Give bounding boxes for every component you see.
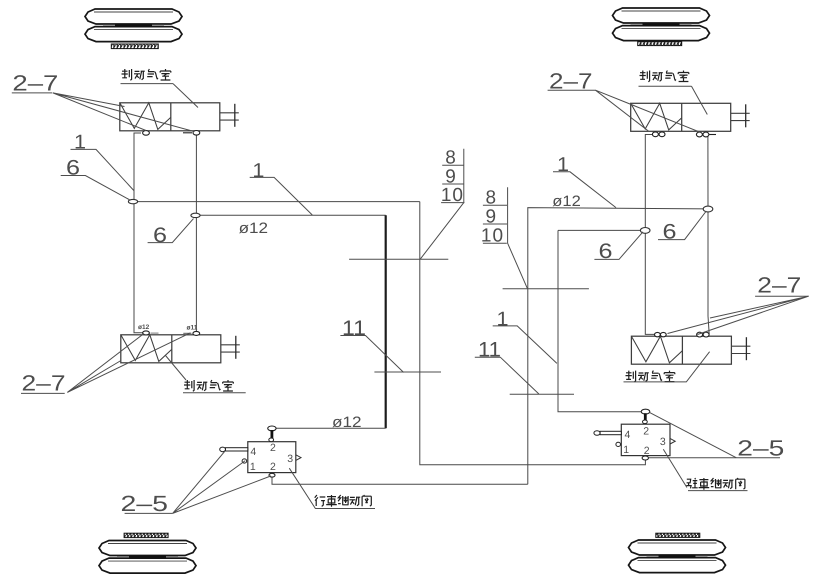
svg-text:2–7: 2–7 <box>549 68 593 93</box>
wire W6: horizontal from node B to thick riser <box>196 214 386 216</box>
port size label ø11 <box>187 325 198 332</box>
right valve bottom port <box>642 456 648 460</box>
bottom-left chamber right port <box>183 331 199 335</box>
bottom-right chamber left port pair <box>655 332 667 336</box>
wheel tire bottom-right <box>629 540 726 573</box>
label 11 (left, pipe pair) <box>340 317 441 372</box>
svg-text:ø12: ø12 <box>239 220 269 237</box>
wire W2: top-left chamber right port down to bottom-left chamber <box>195 135 197 331</box>
svg-text:ø12: ø12 <box>138 324 150 331</box>
svg-text:4: 4 <box>250 446 256 458</box>
wheel tire top-left <box>85 9 182 42</box>
label 驻车继动阀 (parking relay valve) <box>663 449 747 490</box>
wire W13: top-right chamber left port down through node C to bottom-right chamber <box>645 135 654 335</box>
svg-text:6: 6 <box>153 224 167 247</box>
label 制动气室 top-right (brake chamber) <box>639 71 708 115</box>
label 6 (node C) <box>594 232 643 263</box>
svg-text:2: 2 <box>643 425 649 437</box>
wire W7: thick riser x386 <box>385 215 387 428</box>
top-left chamber left port <box>143 131 150 136</box>
label 2-7 top-left with leaders <box>12 71 194 132</box>
brake chamber bottom-right body <box>631 336 750 364</box>
label 1 (right pipe y207) <box>553 154 616 207</box>
wire W8: y428 across to left relay valve top port <box>274 427 386 429</box>
label 2-7 bottom-right with leaders <box>668 273 809 335</box>
brake chamber bottom-left body <box>121 335 240 363</box>
svg-text:ø12: ø12 <box>332 414 362 431</box>
svg-text:1: 1 <box>74 131 86 153</box>
node D connector 6 <box>703 206 713 212</box>
wheel tire top-right <box>613 8 710 41</box>
label 2-7 bottom-left with leaders <box>21 333 191 396</box>
node A connector 6 <box>128 199 137 203</box>
label 制动气室 bottom-left (brake chamber) <box>166 356 246 393</box>
relay valve right 驻车继动阀 body <box>621 424 675 457</box>
svg-text:11: 11 <box>478 339 501 362</box>
brake chamber top-left body <box>120 103 239 131</box>
right valve pilot pin port 4 <box>594 431 621 447</box>
axle hatch bottom-left <box>124 533 168 537</box>
svg-text:ø12: ø12 <box>552 193 581 210</box>
axle hatch top-right <box>638 42 682 46</box>
port size label ø12 <box>138 324 150 331</box>
axle hatch top-left <box>111 44 158 49</box>
label stack 8/9/10 (right) <box>481 187 589 289</box>
left valve top port <box>268 426 276 442</box>
axle hatch bottom-right <box>656 533 700 537</box>
svg-text:2–5: 2–5 <box>121 491 169 516</box>
label 制动气室 bottom-right (brake chamber) <box>624 352 710 382</box>
svg-text:3: 3 <box>287 453 293 465</box>
bottom-right chamber right port pair <box>697 332 710 337</box>
svg-text:3: 3 <box>660 436 666 448</box>
label 6 (node D) <box>658 211 706 244</box>
wire W14: horizontal from node C left to corner x558 <box>558 229 645 231</box>
svg-text:2: 2 <box>644 445 650 457</box>
bottom-left chamber left port <box>143 331 159 335</box>
svg-text:6: 6 <box>66 157 80 180</box>
label ø12 (left pipe) <box>239 220 269 237</box>
svg-text:2: 2 <box>270 461 276 473</box>
right valve top port <box>641 409 650 423</box>
relay valve left 行车继动阀 body <box>248 442 301 473</box>
wire W3: horizontal from node A to corner x420 <box>134 201 420 203</box>
left valve bottom port <box>269 473 275 477</box>
svg-text:2–7: 2–7 <box>757 273 801 298</box>
top-right chamber right port pair <box>696 132 716 137</box>
svg-text:11: 11 <box>342 317 366 340</box>
svg-text:4: 4 <box>625 429 631 441</box>
brake chamber top-right body <box>631 103 750 131</box>
wheel tire bottom-left <box>99 541 196 574</box>
label stack 8/9/10 (left) <box>349 148 464 260</box>
label 1 (pipe x558) <box>493 308 557 363</box>
label 行车继动阀 (service relay valve) <box>289 468 375 508</box>
label 制动气室 top-left (brake chamber) <box>121 69 199 108</box>
node B connector 6 <box>191 213 200 217</box>
wire W9: left relay valve port 2 down and across y484 <box>272 477 528 484</box>
label 11 (right, pipe pair) <box>475 339 574 395</box>
svg-text:ø11: ø11 <box>187 325 198 332</box>
label ø12 (near left relay valve) <box>332 414 362 431</box>
top-right chamber left port pair <box>652 132 665 137</box>
wire W4/W5: down x420, across y466 to right relay valve port 2 <box>420 202 646 465</box>
svg-text:2–5: 2–5 <box>737 436 784 461</box>
label 2-7 top-right with leaders <box>548 68 702 133</box>
top-left chamber right port <box>183 131 200 136</box>
label ø12 (right pipe) <box>552 193 581 210</box>
wire W1: top-left chamber left port down to bottom-left chamber <box>134 133 143 333</box>
label 2-5 left with leaders <box>121 451 272 516</box>
svg-text:1: 1 <box>557 154 569 176</box>
label 2-5 right with leader <box>649 412 785 460</box>
wire W12: node D up to top-right chamber right port, down to bottom-right chamber <box>708 137 709 335</box>
svg-text:6: 6 <box>663 221 677 244</box>
svg-text:2–7: 2–7 <box>22 370 66 395</box>
node C connector 6 <box>640 228 650 234</box>
svg-text:2–7: 2–7 <box>12 71 58 96</box>
left valve pilot pin port 4 <box>220 447 248 463</box>
svg-text:1: 1 <box>250 461 256 473</box>
svg-text:2: 2 <box>270 442 276 454</box>
svg-text:1: 1 <box>252 160 264 182</box>
wire W10/W11: up x528, across y207 to node D <box>528 208 708 485</box>
label 1 (top-left) <box>71 131 134 190</box>
svg-text:1: 1 <box>497 308 509 330</box>
svg-text:1: 1 <box>623 444 629 456</box>
wire W15/W16: down x558, across y413 to right relay valve top port <box>558 230 641 411</box>
label 6 (node B) <box>148 219 194 247</box>
label 1 (pipe y215) <box>250 160 313 215</box>
label 6 (node A) <box>61 157 131 201</box>
